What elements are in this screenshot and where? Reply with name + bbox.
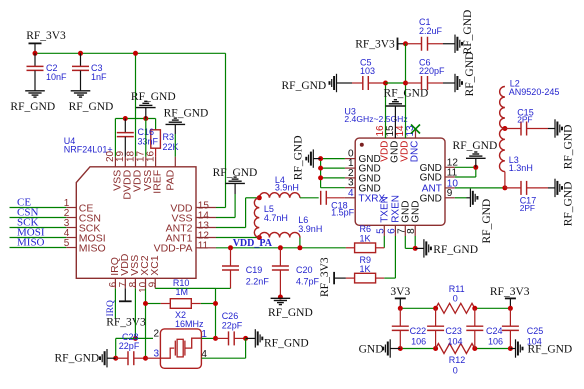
svg-text:RF_GND: RF_GND bbox=[462, 10, 474, 55]
svg-text:MISO: MISO bbox=[17, 237, 45, 249]
svg-text:RF_GND: RF_GND bbox=[264, 337, 309, 349]
node SCK net label bbox=[17, 217, 38, 229]
svg-text:RF_3V3: RF_3V3 bbox=[355, 39, 395, 51]
svg-text:2.2uF: 2.2uF bbox=[419, 26, 443, 36]
ground RF_GND at C17 bbox=[548, 179, 574, 227]
junction U3 gnd bus pin1 bbox=[318, 166, 323, 171]
capacitor C20 bbox=[272, 248, 320, 297]
X2 pin 4 number bbox=[201, 349, 207, 360]
svg-text:RF_3V3: RF_3V3 bbox=[26, 30, 66, 42]
junction R10 right bbox=[213, 301, 218, 306]
value NRF24L01+ bbox=[64, 144, 113, 154]
wire rail drop to U4 pin 18 bbox=[135, 53, 137, 157]
capacitor C24 bbox=[466, 308, 503, 348]
wire U3 pin7 gnd bbox=[405, 236, 415, 248]
resistor R11 bbox=[436, 284, 475, 313]
svg-text:16: 16 bbox=[145, 150, 156, 162]
svg-text:GND: GND bbox=[420, 173, 442, 184]
wire ANT to antenna node bbox=[455, 187, 505, 189]
U3 pin 6 RXEN bbox=[386, 195, 401, 236]
wire U3 pin9 to ground bbox=[455, 197, 467, 199]
U3 pin 10 ANT bbox=[422, 178, 459, 194]
resistor R9 bbox=[346, 255, 396, 283]
svg-text:4.7pF: 4.7pF bbox=[296, 277, 320, 287]
ground RF_GND at C6 bbox=[443, 52, 476, 97]
svg-text:C25: C25 bbox=[527, 326, 544, 336]
wire net SCK bbox=[10, 227, 67, 229]
U4 pin 11 VDD-PA bbox=[154, 241, 216, 255]
U3 pin 12 GND bbox=[420, 158, 459, 174]
wire VDD_PA rail bbox=[216, 247, 346, 249]
svg-text:8: 8 bbox=[406, 228, 417, 234]
svg-text:104: 104 bbox=[448, 337, 463, 347]
junction filter bottom 4 bbox=[508, 346, 513, 351]
capacitor C3 bbox=[72, 53, 107, 90]
wire filter top left bbox=[400, 307, 435, 309]
junction pin8/crystal pin2 bbox=[133, 336, 138, 341]
svg-text:C22: C22 bbox=[410, 326, 427, 336]
svg-text:GND: GND bbox=[411, 201, 422, 223]
ground RF_GND under C2 bbox=[10, 91, 55, 113]
U3 pin 4 TXRX bbox=[345, 188, 386, 205]
svg-text:GND: GND bbox=[359, 344, 384, 356]
svg-text:10nF: 10nF bbox=[46, 72, 67, 82]
svg-text:16MHz: 16MHz bbox=[175, 319, 204, 329]
U4 pin 2 CSN bbox=[64, 208, 101, 224]
svg-text:RF_3V3: RF_3V3 bbox=[490, 286, 530, 298]
svg-text:R12: R12 bbox=[449, 355, 466, 365]
U4 pin 19 DVDD bbox=[115, 150, 133, 199]
svg-text:VDD_PA: VDD_PA bbox=[233, 238, 273, 249]
wire crystal pin4 net bbox=[201, 338, 245, 358]
U3 pin 16 VDD bbox=[375, 125, 390, 162]
svg-text:3V3: 3V3 bbox=[390, 286, 410, 298]
svg-text:4: 4 bbox=[348, 188, 354, 199]
inductor L6 bbox=[259, 215, 322, 238]
wire pin14 VSS to ground bbox=[216, 194, 235, 218]
designator U3 bbox=[344, 106, 356, 116]
svg-text:0: 0 bbox=[453, 294, 458, 304]
svg-text:RF_GND: RF_GND bbox=[464, 52, 476, 97]
svg-text:1K: 1K bbox=[360, 233, 371, 243]
value 16MHz bbox=[175, 319, 204, 329]
X2 pin 3 number bbox=[153, 349, 159, 360]
junction U3 pin12 ground bbox=[473, 165, 478, 170]
junction top rail at C2 bbox=[33, 51, 38, 56]
wire C5 to C6 bbox=[386, 82, 406, 84]
svg-text:RF_GND: RF_GND bbox=[433, 244, 478, 256]
svg-text:C20: C20 bbox=[296, 265, 313, 275]
U4 pin 10 XC2 bbox=[138, 255, 151, 293]
svg-text:C24: C24 bbox=[486, 326, 503, 336]
junction ANT1/L5/L6 bbox=[257, 235, 262, 240]
wire rail drop to U4 pin 15 bbox=[225, 53, 227, 207]
wire net MOSI bbox=[10, 237, 67, 239]
svg-text:1M: 1M bbox=[176, 287, 189, 297]
wire crystal pin2 net bbox=[116, 338, 153, 358]
svg-text:22pF: 22pF bbox=[119, 341, 140, 351]
node CE net label bbox=[17, 197, 31, 209]
ground RF_GND at U3 pin15 bbox=[384, 87, 429, 138]
svg-text:IRQ: IRQ bbox=[106, 300, 116, 317]
capacitor C28 bbox=[116, 332, 146, 365]
capacitor C26 bbox=[216, 311, 246, 345]
capacitor C17 bbox=[505, 181, 548, 213]
junction C5/pin16 bbox=[383, 81, 388, 86]
junction filter bottom 2 bbox=[433, 346, 438, 351]
junction filter top 3 bbox=[472, 306, 477, 311]
junction ANT2/L4/L5 bbox=[257, 195, 262, 200]
node MOSI net label bbox=[17, 227, 45, 239]
U4 pin 20 VSS bbox=[105, 150, 123, 190]
wire ANT1 to L5/L6 node bbox=[216, 237, 259, 239]
power port RF_GND (bottom right) bbox=[510, 339, 572, 357]
power port GND bbox=[359, 339, 401, 357]
wire U3 pin12 to ground bbox=[455, 166, 476, 168]
U4 pin 13 ANT2 bbox=[166, 220, 216, 234]
svg-text:3: 3 bbox=[153, 349, 159, 360]
wire filter bottom left bbox=[400, 348, 435, 350]
junction top rail at VDD drop bbox=[133, 51, 138, 56]
svg-text:RF_GND: RF_GND bbox=[481, 199, 493, 244]
op-amp U3 body bbox=[355, 138, 445, 225]
node VDD_PA net label bbox=[233, 238, 273, 249]
U4 pin 17 VSS bbox=[136, 150, 154, 190]
U4 pin 8 VSS bbox=[128, 255, 141, 289]
resistor R6 bbox=[346, 224, 384, 252]
U4 pin 4 MOSI bbox=[64, 228, 106, 244]
svg-text:RF_GND: RF_GND bbox=[282, 80, 327, 92]
svg-text:MISO: MISO bbox=[79, 242, 106, 254]
capacitor C18 bbox=[300, 191, 355, 218]
wire filter bottom right bbox=[475, 348, 511, 350]
svg-text:1K: 1K bbox=[360, 264, 371, 274]
junction C1/RF_3V3 bbox=[403, 41, 408, 46]
svg-text:0: 0 bbox=[453, 365, 458, 375]
ground RF_GND under C3 bbox=[69, 91, 114, 113]
svg-text:3.9nH: 3.9nH bbox=[298, 224, 322, 234]
node IRQ net label bbox=[106, 300, 116, 317]
wire TXEN riser bbox=[383, 236, 385, 248]
U3 pin 13 DNC bbox=[405, 125, 420, 162]
svg-text:9: 9 bbox=[148, 281, 159, 287]
capacitor C5 bbox=[352, 58, 386, 91]
svg-text:RF_GND: RF_GND bbox=[562, 125, 574, 170]
U4 pin 3 SCK bbox=[64, 218, 101, 234]
wire XC1 net bbox=[155, 287, 215, 289]
capacitor C15 bbox=[505, 107, 548, 135]
wire L3 to ANT bbox=[504, 172, 506, 188]
designator X2 bbox=[175, 310, 186, 320]
svg-text:2PF: 2PF bbox=[520, 203, 535, 213]
svg-text:220pF: 220pF bbox=[419, 66, 445, 76]
U4 pin 7 VDD bbox=[118, 253, 131, 288]
wire IRQ stub bbox=[114, 288, 116, 318]
junction filter bottom 1 bbox=[398, 346, 403, 351]
inductor L3 bbox=[500, 129, 533, 174]
inductor L4 bbox=[259, 175, 300, 198]
svg-text:4.7nH: 4.7nH bbox=[264, 213, 288, 223]
svg-text:RF_3V3: RF_3V3 bbox=[106, 316, 146, 328]
svg-text:2: 2 bbox=[153, 329, 159, 340]
ground RF_GND at U3 pins 7-8 bbox=[415, 239, 478, 257]
power port 3V3 bbox=[390, 286, 410, 308]
U3 pin 11 GND bbox=[420, 167, 458, 183]
junction C6/pin14 bbox=[403, 81, 408, 86]
power port RF_3V3 at R9 bbox=[319, 257, 346, 297]
wire U3 pin14 VDD bbox=[405, 83, 407, 138]
capacitor C22 bbox=[392, 308, 426, 348]
designator U4 bbox=[64, 136, 76, 146]
junction VDD_PA at C20 bbox=[278, 245, 283, 250]
X2 pin 2 number bbox=[153, 329, 159, 340]
svg-text:106: 106 bbox=[488, 337, 503, 347]
capacitor C25 bbox=[502, 308, 543, 348]
junction filter top 2 bbox=[433, 306, 438, 311]
wire U3 pin11 to ground bbox=[455, 167, 476, 177]
junction C16 top bbox=[123, 116, 128, 121]
X2 pin 1 number bbox=[201, 329, 207, 340]
inductor L5 bbox=[254, 198, 288, 238]
junction filter top 4 bbox=[508, 306, 513, 311]
U4 pin 5 MISO bbox=[64, 238, 106, 254]
junction crystal pin1 bbox=[213, 336, 218, 341]
svg-text:RF_GND: RF_GND bbox=[528, 344, 573, 356]
svg-text:GND: GND bbox=[420, 193, 442, 204]
capacitor C23 bbox=[427, 308, 462, 348]
node MISO net label bbox=[17, 237, 45, 249]
svg-text:3.9nH: 3.9nH bbox=[275, 183, 299, 193]
wire filter top right bbox=[475, 307, 511, 309]
wire XC2 line bbox=[145, 288, 147, 358]
capacitor C2 bbox=[27, 53, 68, 90]
node CSN net label bbox=[17, 207, 38, 219]
wire DVDD decoupling net bbox=[115, 118, 155, 120]
wire ground to U4 pin 17 bbox=[145, 119, 147, 157]
no-connect X on U3 pin13 bbox=[411, 125, 420, 134]
junction VSS ground bbox=[143, 116, 148, 121]
ground RF_GND at C1 bbox=[443, 10, 474, 55]
svg-text:C19: C19 bbox=[246, 265, 263, 275]
op-amp U4 NRF24L01+ body bbox=[76, 167, 196, 278]
ground RF_GND at U3 left bbox=[292, 135, 320, 180]
svg-text:2PF: 2PF bbox=[517, 114, 532, 124]
power port RF_3V3 (C1) bbox=[355, 38, 405, 51]
resistor R3 bbox=[151, 119, 179, 157]
wire net CSN bbox=[10, 217, 67, 219]
svg-text:103: 103 bbox=[360, 66, 375, 76]
value 2.4GHz~2.5GHz bbox=[344, 114, 407, 124]
wire U3 pin8 gnd bbox=[414, 236, 416, 248]
ground RF_GND at pin14 bbox=[213, 167, 258, 194]
ground RF_GND at C28 bbox=[55, 349, 116, 367]
wire ANT2 to L4 node bbox=[216, 198, 259, 228]
capacitor C6 bbox=[406, 58, 446, 91]
svg-text:PAD: PAD bbox=[165, 169, 177, 190]
junction C28 right bbox=[143, 356, 148, 361]
ground RF_GND at C26 bbox=[246, 329, 309, 349]
junction U3 gnd bus pin2 bbox=[318, 175, 323, 180]
U4 pin 1 CE bbox=[64, 198, 94, 214]
svg-text:1.5pF: 1.5pF bbox=[331, 208, 355, 218]
wire ground to U4 PAD pin bbox=[174, 134, 176, 157]
svg-text:RF_GND: RF_GND bbox=[164, 107, 209, 119]
resistor R10 bbox=[146, 278, 216, 308]
svg-text:AN9520-245: AN9520-245 bbox=[509, 87, 560, 97]
ground RF_GND above C16 net bbox=[131, 91, 176, 119]
wire pin15 to rail bbox=[216, 207, 226, 209]
junction filter bottom 3 bbox=[472, 346, 477, 351]
svg-text:RF_GND: RF_GND bbox=[562, 182, 574, 227]
svg-text:9: 9 bbox=[447, 188, 453, 199]
wire C19 bottom to XC1 net bbox=[216, 287, 231, 289]
svg-text:5: 5 bbox=[375, 228, 386, 234]
wire to U4 pin 20 bbox=[114, 119, 116, 157]
svg-text:RF_GND: RF_GND bbox=[268, 307, 313, 319]
svg-text:2.4GHz~2.5GHz: 2.4GHz~2.5GHz bbox=[344, 114, 407, 124]
power port RF_3V3 (bottom right) bbox=[490, 286, 530, 308]
svg-text:RF_GND: RF_GND bbox=[453, 140, 498, 152]
junction U3 gnd bus pin0 bbox=[318, 156, 323, 161]
wire RXEN riser bbox=[394, 236, 396, 278]
ground RF_GND at C5 bbox=[282, 74, 353, 92]
junction R10 left bbox=[143, 301, 148, 306]
U3 pin 15 GND bbox=[385, 125, 400, 163]
wire top rail RF_3V3 bbox=[35, 52, 226, 54]
wire U3 gnd pins bus bbox=[321, 159, 345, 188]
U3 pin 8 GND bbox=[406, 201, 421, 236]
svg-text:XC1: XC1 bbox=[149, 255, 161, 276]
svg-text:RF_GND: RF_GND bbox=[10, 101, 55, 113]
U4 pin PAD bbox=[165, 157, 177, 191]
svg-text:VDD-PA: VDD-PA bbox=[154, 243, 193, 255]
svg-text:TXEN: TXEN bbox=[380, 196, 391, 223]
junction C26 right bbox=[243, 336, 248, 341]
svg-text:11: 11 bbox=[198, 241, 209, 252]
wire net MISO bbox=[10, 247, 67, 249]
U3 pin 0 GND bbox=[345, 149, 381, 166]
power port RF_3V3 (top left) bbox=[26, 30, 66, 53]
junction U3 pin8 gnd bbox=[413, 246, 418, 251]
svg-text:106: 106 bbox=[411, 337, 426, 347]
U3 pin 9 GND bbox=[420, 188, 455, 204]
U4 pin 12 ANT1 bbox=[166, 230, 216, 244]
ground RF_GND above PAD bbox=[164, 107, 209, 134]
crystal X2 16MHz body bbox=[160, 329, 201, 368]
wire RF_3V3 to C6 rail bbox=[405, 44, 407, 83]
U3 pin 7 GND bbox=[396, 201, 411, 236]
ground RF_GND at U3 pin9 bbox=[467, 189, 493, 244]
junction L2/C15/L3 bbox=[502, 126, 507, 131]
U4 pin 9 XC1 bbox=[148, 255, 161, 288]
resistor R12 bbox=[436, 344, 475, 376]
svg-text:RF_GND: RF_GND bbox=[292, 135, 304, 180]
junction VDD_PA at C19 bbox=[228, 245, 233, 250]
junction C28 left bbox=[113, 356, 118, 361]
capacitor C1 bbox=[406, 17, 444, 51]
U3 pin 1 GND bbox=[345, 158, 381, 175]
junction L3/ANT/C17 bbox=[502, 185, 507, 190]
wire crystal pin3 lead bbox=[146, 357, 161, 359]
svg-text:1.3nH: 1.3nH bbox=[509, 163, 533, 173]
U4 pin 18 VDD bbox=[125, 150, 143, 192]
wire VSS pin8 drop bbox=[134, 288, 136, 338]
svg-text:RF_3V3: RF_3V3 bbox=[319, 257, 331, 297]
capacitor C16 bbox=[117, 119, 159, 157]
svg-text:22K: 22K bbox=[163, 142, 179, 152]
ground RF_GND under C20 bbox=[268, 298, 313, 319]
U4 pin 15 VDD bbox=[170, 200, 216, 214]
U3 pin 14 VDD bbox=[395, 125, 410, 162]
svg-text:2.2nF: 2.2nF bbox=[246, 277, 270, 287]
junction top rail at C3 bbox=[78, 51, 83, 56]
svg-text:R3: R3 bbox=[163, 132, 175, 142]
svg-text:33nF: 33nF bbox=[138, 137, 159, 147]
U4 pin 6 IRQ bbox=[108, 257, 121, 288]
U4 pin 16 IREF bbox=[145, 150, 163, 193]
wire U3 pin16 VDD bbox=[385, 83, 387, 138]
inductor L2 bbox=[500, 78, 560, 128]
junction L6/VDD_PA bbox=[297, 245, 302, 250]
svg-text:IREF: IREF bbox=[152, 170, 164, 194]
U3 pin 5 TXEN bbox=[375, 196, 390, 236]
wire net CE bbox=[10, 207, 67, 209]
capacitor C19 bbox=[222, 248, 269, 289]
U3 pin 3 GND bbox=[345, 178, 381, 195]
svg-text:DNC: DNC bbox=[410, 141, 421, 163]
svg-text:C23: C23 bbox=[445, 326, 462, 336]
wire crystal pin1 net bbox=[201, 337, 215, 339]
svg-text:RF_GND: RF_GND bbox=[131, 91, 176, 103]
U4 pin 14 VSS bbox=[171, 210, 216, 224]
svg-text:22pF: 22pF bbox=[222, 320, 243, 330]
wire XC1 riser bbox=[215, 288, 217, 338]
ground RF_GND at C15 bbox=[548, 119, 574, 169]
U3 pin 2 GND bbox=[345, 168, 381, 185]
svg-text:1nF: 1nF bbox=[91, 72, 107, 82]
svg-text:RF_GND: RF_GND bbox=[55, 353, 100, 365]
power port RF_3V3 at U4 pin 7 bbox=[106, 288, 146, 328]
svg-text:RF_GND: RF_GND bbox=[69, 101, 114, 113]
junction filter top 1 bbox=[398, 306, 403, 311]
ground RF_GND above U3 pin12 bbox=[453, 140, 498, 167]
junction C20 ground bbox=[278, 295, 283, 300]
wire L6 to VDD_PA bbox=[299, 238, 301, 248]
